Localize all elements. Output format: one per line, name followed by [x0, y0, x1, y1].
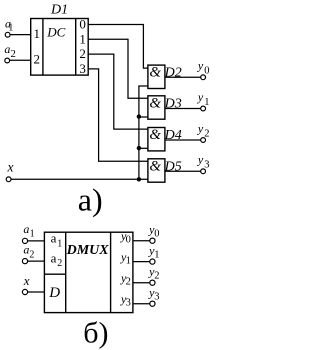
svg-text:2: 2: [204, 128, 209, 139]
svg-text:a: a: [4, 42, 10, 56]
svg-text:1: 1: [57, 239, 62, 250]
svg-text:D2: D2: [164, 66, 182, 81]
svg-text:x: x: [7, 160, 14, 175]
svg-text:D: D: [48, 285, 60, 301]
svg-text:DC: DC: [46, 25, 65, 40]
svg-text:1: 1: [79, 31, 86, 46]
svg-text:1: 1: [126, 256, 131, 267]
svg-text:0: 0: [79, 17, 86, 32]
svg-text:б): б): [83, 317, 108, 350]
svg-text:&: &: [149, 127, 161, 143]
svg-text:a: a: [23, 222, 29, 236]
svg-text:D4: D4: [164, 128, 182, 143]
svg-text:2: 2: [29, 250, 34, 261]
svg-text:2: 2: [126, 277, 131, 288]
svg-text:D1: D1: [50, 3, 68, 18]
svg-text:x: x: [23, 273, 30, 288]
svg-text:а): а): [78, 182, 103, 218]
svg-text:&: &: [149, 158, 161, 174]
svg-text:3: 3: [126, 298, 131, 309]
svg-text:y: y: [197, 59, 204, 73]
svg-text:D5: D5: [164, 160, 182, 175]
svg-text:2: 2: [154, 271, 159, 282]
svg-text:a: a: [51, 251, 57, 266]
svg-text:3: 3: [79, 61, 86, 76]
svg-text:1: 1: [154, 250, 159, 261]
svg-text:3: 3: [204, 160, 209, 171]
svg-text:y: y: [197, 121, 204, 135]
svg-text:2: 2: [33, 52, 40, 67]
svg-text:DMUX: DMUX: [66, 243, 110, 258]
svg-text:D3: D3: [164, 97, 182, 112]
svg-text:2: 2: [11, 48, 16, 60]
svg-text:3: 3: [154, 292, 159, 303]
svg-text:1: 1: [30, 228, 35, 239]
svg-text:a: a: [51, 231, 57, 246]
svg-text:y: y: [197, 153, 204, 167]
svg-text:1: 1: [8, 23, 13, 34]
svg-text:1: 1: [204, 97, 209, 108]
svg-text:&: &: [149, 95, 161, 111]
svg-text:0: 0: [154, 229, 159, 240]
svg-text:y: y: [197, 90, 204, 104]
svg-text:0: 0: [204, 66, 209, 77]
svg-text:2: 2: [79, 46, 86, 61]
svg-text:1: 1: [33, 26, 40, 41]
svg-text:0: 0: [126, 235, 131, 246]
svg-text:&: &: [149, 65, 161, 81]
svg-text:2: 2: [57, 258, 62, 269]
